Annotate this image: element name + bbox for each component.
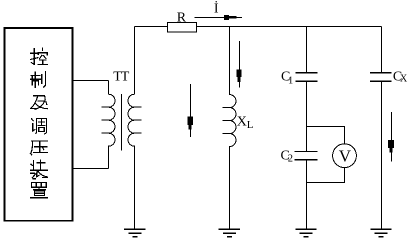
svg-text:V: V	[339, 146, 352, 165]
svg-text:R: R	[177, 10, 187, 25]
svg-text:1: 1	[288, 76, 293, 87]
svg-text:İ: İ	[214, 1, 219, 17]
svg-text:2: 2	[288, 154, 293, 165]
svg-text:TT: TT	[113, 70, 130, 85]
svg-text:X: X	[237, 115, 247, 130]
svg-text:L: L	[247, 119, 254, 131]
svg-text:X: X	[400, 74, 408, 85]
